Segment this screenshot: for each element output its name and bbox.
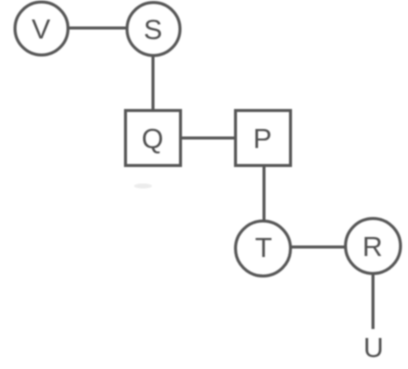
- wire T-R: [290, 246, 346, 249]
- svg-text:R: R: [362, 231, 382, 262]
- node P: [236, 111, 291, 166]
- node T: [236, 221, 291, 276]
- node V: [15, 2, 68, 55]
- svg-text:P: P: [253, 123, 272, 154]
- svg-text:V: V: [32, 14, 51, 45]
- node R: [346, 219, 401, 274]
- svg-text:Q: Q: [142, 123, 164, 154]
- wire P-T: [263, 165, 266, 222]
- svg-text:S: S: [144, 14, 163, 45]
- wire S-Q: [152, 55, 155, 111]
- wire V-S: [68, 27, 127, 30]
- node Q: [126, 111, 181, 166]
- node S: [127, 3, 180, 56]
- svg-text:T: T: [255, 232, 272, 263]
- wire R-U: [372, 273, 375, 329]
- wire Q-P: [180, 137, 236, 140]
- svg-text:U: U: [363, 332, 383, 363]
